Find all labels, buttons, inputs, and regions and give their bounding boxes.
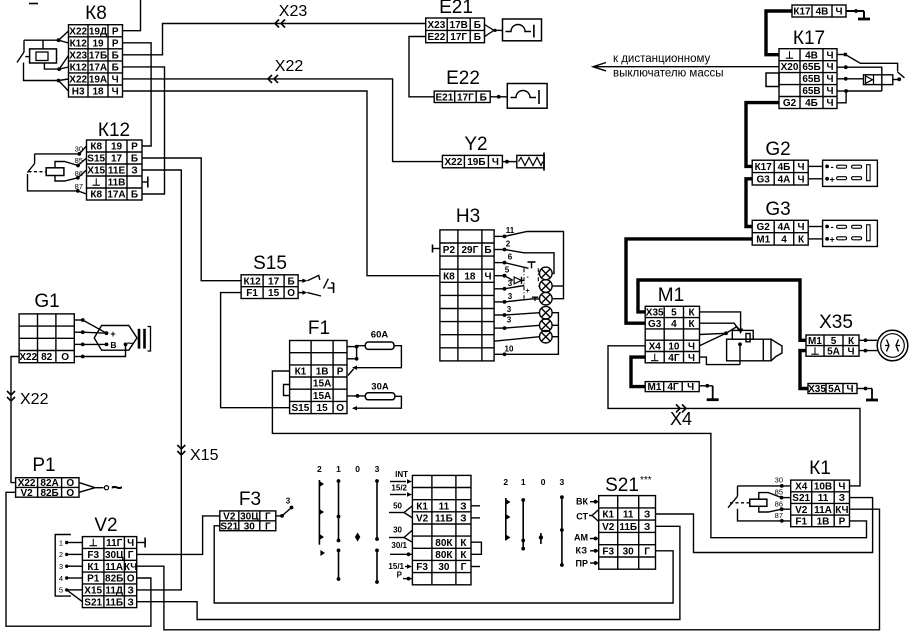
F1 left bracket linking 15A rows — [284, 385, 290, 396]
svg-text:S21: S21 — [84, 597, 102, 608]
svg-text:Ч: Ч — [838, 482, 845, 493]
ignition switch terminal R — [397, 571, 413, 581]
thick cable K17 pin5 to G2 pin1 — [746, 103, 779, 167]
svg-text:Х15: Х15 — [190, 447, 219, 464]
svg-text:Х22: Х22 — [19, 352, 37, 363]
svg-text:к дистанционному: к дистанционному — [613, 53, 711, 65]
svg-text:S15: S15 — [87, 154, 105, 165]
svg-text:17: 17 — [268, 276, 280, 287]
svg-text:Ч: Ч — [484, 271, 491, 282]
H3 pin 10 wire to lower lamp rail — [494, 313, 558, 356]
svg-text:19Б: 19Б — [467, 157, 485, 168]
svg-text:3: 3 — [286, 497, 291, 506]
svg-text:F1: F1 — [308, 318, 330, 339]
svg-text:V2: V2 — [795, 505, 808, 516]
socket X35 connector table — [806, 312, 859, 358]
svg-text:G2: G2 — [765, 139, 790, 160]
svg-text:Х22: Х22 — [69, 75, 87, 86]
svg-text:Ч: Ч — [797, 162, 804, 173]
svg-text:Р1: Р1 — [87, 574, 100, 585]
svg-text:15: 15 — [317, 403, 329, 414]
svg-text:18: 18 — [92, 87, 104, 98]
F1 wire to fuse 30A — [347, 394, 365, 398]
svg-text:3: 3 — [507, 316, 512, 325]
wire K8 pin6 to H3 pin — [123, 91, 440, 276]
svg-text:17В: 17В — [450, 20, 468, 31]
wires X35 to socket symbol — [859, 338, 877, 352]
svg-text:М1: М1 — [658, 285, 684, 306]
lamp E22 symbol — [490, 84, 547, 109]
svg-text:30: 30 — [775, 476, 783, 485]
svg-text:F3: F3 — [416, 562, 428, 573]
svg-text:G3: G3 — [765, 199, 790, 220]
svg-text:5А: 5А — [828, 384, 841, 395]
svg-text:Р2: Р2 — [443, 245, 456, 256]
svg-text:82: 82 — [41, 352, 53, 363]
H3 lamp rail stub to lamp 2 — [552, 285, 564, 287]
svg-text:КЧ: КЧ — [835, 505, 848, 516]
lamp E21 symbol — [485, 19, 542, 41]
switch S15 connector table — [241, 253, 298, 299]
ignition switch terminal 30 crowfoot — [389, 526, 412, 543]
svg-text:Ч: Ч — [835, 7, 842, 18]
svg-text:Ч: Ч — [112, 75, 119, 86]
relay-regulator P1 connector table — [16, 455, 79, 499]
svg-text:Г: Г — [265, 521, 271, 532]
resistor Y2 symbol — [502, 153, 544, 171]
svg-text:К: К — [460, 550, 467, 561]
svg-text:3: 3 — [560, 477, 565, 487]
svg-text:11Б: 11Б — [435, 514, 453, 525]
svg-text:Р: Р — [112, 26, 119, 37]
svg-text:15: 15 — [268, 288, 280, 299]
svg-text:S21: S21 — [792, 493, 810, 504]
wires G3 to battery symbol — [808, 227, 822, 239]
svg-text:17А: 17А — [89, 63, 107, 74]
svg-text:11А: 11А — [814, 505, 832, 516]
svg-text:Е22: Е22 — [428, 32, 446, 43]
svg-text:11Е: 11Е — [108, 166, 126, 177]
svg-text:Ч: Ч — [127, 538, 134, 549]
svg-text:17Г: 17Г — [457, 92, 474, 103]
svg-text:17Б: 17Б — [89, 50, 107, 61]
svg-text:В: В — [110, 340, 116, 350]
svg-text:11: 11 — [818, 493, 829, 504]
svg-text:11Д: 11Д — [105, 585, 123, 596]
svg-text:К: К — [460, 538, 467, 549]
wires G2 to battery symbol — [808, 166, 822, 178]
svg-text:Ч: Ч — [688, 353, 695, 364]
wire K12 pin3 connector X15 line to V2 — [137, 170, 182, 590]
svg-text:11Б: 11Б — [619, 522, 637, 533]
wire K8 pin3 to connector X23 line to E21 — [123, 24, 426, 55]
svg-text:Х15: Х15 — [87, 166, 105, 177]
svg-text:Ч: Ч — [826, 98, 833, 109]
svg-text:К12: К12 — [70, 63, 88, 74]
wire K12 pin2 to S15 — [142, 158, 242, 281]
svg-text:АМ: АМ — [574, 533, 588, 543]
svg-text:Ч: Ч — [826, 50, 833, 61]
svg-text:Б: Б — [131, 154, 138, 165]
svg-text:S15: S15 — [253, 253, 287, 274]
svg-text:30: 30 — [393, 526, 402, 535]
svg-text:Ч: Ч — [846, 384, 853, 395]
H3 pin 2 wire to lamp 2 — [494, 240, 554, 274]
svg-text:1В: 1В — [316, 367, 329, 378]
wire S15 pin2 to F1 S15 row — [221, 293, 290, 408]
svg-text:19А: 19А — [89, 75, 107, 86]
svg-text:Х4: Х4 — [649, 342, 662, 353]
svg-text:19: 19 — [92, 38, 104, 49]
svg-text:18: 18 — [464, 271, 476, 282]
svg-text:К8: К8 — [443, 271, 455, 282]
svg-text:Р: Р — [839, 517, 846, 528]
svg-text:11А: 11А — [105, 562, 123, 573]
svg-text:G2: G2 — [757, 222, 771, 233]
svg-text:Б: Б — [131, 190, 138, 201]
svg-text:К17: К17 — [793, 28, 825, 49]
wire K8 pin4 to K12 pin5 — [123, 67, 165, 194]
svg-text:З: З — [460, 501, 466, 512]
svg-text:1: 1 — [59, 538, 63, 547]
svg-text:⊥: ⊥ — [811, 347, 820, 358]
svg-text:Б: Б — [474, 32, 481, 43]
H3 pin 5 wire with diode — [494, 266, 524, 284]
svg-text:6: 6 — [508, 253, 513, 262]
svg-text:5: 5 — [59, 586, 63, 595]
svg-text:Б: Б — [474, 20, 481, 31]
svg-text:К: К — [688, 308, 695, 319]
svg-text:0: 0 — [541, 477, 546, 487]
svg-text:82Б: 82Б — [40, 488, 58, 499]
svg-text:S21: S21 — [605, 475, 639, 496]
connector X22 break marks left — [7, 391, 15, 401]
svg-text:З: З — [460, 514, 466, 525]
wire F1 K1 row to relay K1 F1 row — [272, 371, 866, 538]
ignition switch connector table — [412, 475, 471, 584]
starter motor symbol — [727, 330, 782, 360]
svg-text:Х23: Х23 — [69, 50, 87, 61]
svg-text:4А: 4А — [778, 174, 791, 185]
connector X22 break marks — [268, 75, 278, 83]
svg-text:Ч: Ч — [797, 222, 804, 233]
svg-text:К12: К12 — [98, 120, 130, 141]
svg-text:К12: К12 — [70, 38, 88, 49]
svg-text:11: 11 — [439, 501, 450, 512]
svg-text:+: + — [829, 175, 834, 185]
svg-text:-: - — [831, 162, 834, 172]
svg-text:-: - — [526, 274, 529, 281]
svg-text:4Б: 4Б — [778, 162, 791, 173]
H3 row9 wire to lamp 6 — [494, 337, 540, 342]
svg-text:Н3: Н3 — [456, 206, 480, 227]
position chart 1 column 1 bar — [337, 479, 341, 581]
K17 left tab marker — [766, 73, 779, 87]
svg-text:Ч: Ч — [847, 347, 854, 358]
warning lamp 5 — [540, 319, 553, 332]
wire K8 pin1 up to edge — [123, 0, 141, 31]
svg-text:1: 1 — [336, 464, 341, 474]
svg-text:Р1: Р1 — [32, 455, 55, 476]
resistor unit Y2 connector table — [442, 134, 502, 168]
svg-text:⊥: ⊥ — [92, 178, 101, 189]
svg-text:30: 30 — [623, 546, 635, 557]
label k distantsionnomu vyklyuchatelyu massy — [613, 53, 724, 80]
svg-text:К8: К8 — [90, 142, 102, 153]
svg-text:3: 3 — [59, 562, 63, 571]
svg-text:О: О — [127, 574, 135, 585]
connector X35-5A-Ch table — [808, 384, 857, 394]
svg-text:Х15: Х15 — [84, 585, 102, 596]
svg-text:29Г: 29Г — [462, 245, 479, 256]
battery G2 symbol — [823, 160, 878, 186]
ignition switch terminal INT — [390, 470, 412, 484]
svg-text:К1: К1 — [602, 510, 614, 521]
position chart 1 column 3 bar — [375, 479, 379, 584]
svg-text:50: 50 — [393, 502, 402, 511]
svg-text:G3: G3 — [757, 174, 771, 185]
K12 pin4 terminator bar — [142, 177, 148, 188]
P1 contact symbol — [79, 477, 123, 499]
position chart 2 column 2 bar — [506, 498, 511, 541]
wire relay K1 V2 row to V2 K1 row bottom bus — [137, 509, 880, 630]
svg-text:ВК: ВК — [576, 497, 588, 507]
wire K8 pin2 to K12 pin1 — [123, 43, 151, 146]
ignition switch right stubs — [471, 506, 481, 567]
svg-text:М1: М1 — [648, 382, 662, 393]
connector X23 break marks — [275, 20, 285, 28]
svg-text:Х22: Х22 — [445, 157, 463, 168]
svg-text:80К: 80К — [435, 550, 453, 561]
svg-text:85: 85 — [75, 156, 83, 165]
svg-text:Х20: Х20 — [781, 62, 799, 73]
svg-text:+: + — [110, 329, 115, 339]
svg-text:Е22: Е22 — [446, 68, 480, 89]
svg-text:К1: К1 — [295, 367, 307, 378]
wire fuse 30A return to S15 row — [352, 396, 401, 410]
relay K1 internal coil and switch symbol — [728, 484, 791, 523]
svg-text:З: З — [127, 597, 133, 608]
svg-text:17Г: 17Г — [450, 32, 467, 43]
thick cable M1 ground pin to M1-4G-Ch — [631, 357, 645, 387]
svg-text:⊥: ⊥ — [785, 50, 794, 61]
svg-text:60А: 60А — [371, 330, 389, 341]
wire P1 pin2 to V2 P1 row — [6, 492, 151, 626]
svg-text:Х4: Х4 — [795, 482, 808, 493]
thick cable G2 pin2 to G3 pin1 — [746, 179, 752, 227]
svg-text:Р: Р — [112, 38, 119, 49]
svg-text:Х23: Х23 — [428, 20, 446, 31]
wire F3 pin2 to S21 F3 row bus — [214, 526, 673, 603]
svg-text:11Б: 11Б — [105, 597, 123, 608]
H3 left pin2 terminator — [433, 245, 440, 253]
warning lamp 1 — [540, 267, 553, 280]
svg-text:Ч: Ч — [688, 342, 695, 353]
ground symbol top right — [846, 9, 870, 19]
svg-text:2: 2 — [506, 240, 511, 249]
svg-text:КЗ: КЗ — [576, 546, 588, 556]
svg-text:Е21: Е21 — [436, 92, 454, 103]
fuse box F1 connector table — [290, 318, 347, 414]
svg-text:З: З — [839, 493, 845, 504]
svg-text:F3: F3 — [87, 550, 99, 561]
thin wire M1 pin X4 to X4 line — [608, 346, 860, 486]
connector M1-4G-Ch table — [645, 382, 699, 392]
wire S21 V2 row to V2 S21 row bus — [137, 526, 680, 619]
svg-text:М1: М1 — [756, 235, 770, 246]
relay K8 internal coil and switch symbol — [17, 31, 69, 91]
thick cable X35 ground pin to X35-5A-Ch — [800, 351, 808, 389]
svg-text:17: 17 — [111, 154, 123, 165]
svg-text:К1: К1 — [416, 501, 428, 512]
svg-text:КЧ: КЧ — [124, 562, 137, 573]
warning lamp 6 — [540, 330, 553, 343]
svg-text:К1: К1 — [87, 562, 99, 573]
svg-text:~: ~ — [127, 338, 134, 350]
svg-text:19Д: 19Д — [89, 26, 107, 37]
svg-text:65Б: 65Б — [802, 62, 820, 73]
wire fuse 60A return to K1 row — [348, 346, 401, 376]
svg-text:Ч: Ч — [492, 157, 499, 168]
svg-text:65В: 65В — [802, 86, 820, 97]
svg-text:Е21: Е21 — [439, 0, 473, 18]
svg-text:Г: Г — [128, 550, 134, 561]
svg-text:3: 3 — [508, 279, 513, 288]
starter relay K1 connector table — [791, 458, 850, 528]
svg-text:10: 10 — [505, 345, 514, 354]
V2 left housing bracket and pins — [55, 535, 82, 602]
position chart 1 column 0 marker — [355, 533, 360, 542]
F1 feed wires to fuse 60A — [347, 345, 365, 361]
svg-text:30: 30 — [438, 562, 450, 573]
svg-text:15/2: 15/2 — [391, 484, 407, 493]
svg-text:4Г: 4Г — [667, 382, 679, 393]
svg-text:11: 11 — [623, 510, 634, 521]
svg-text:4: 4 — [781, 235, 787, 246]
relay K1 pin numbers 30 85 86 87 — [775, 476, 783, 521]
svg-text:СТ: СТ — [576, 512, 588, 522]
generator G1 connector table — [19, 291, 74, 363]
svg-text:V2: V2 — [20, 488, 33, 499]
svg-text:4В: 4В — [805, 50, 818, 61]
svg-text:⊥: ⊥ — [650, 353, 659, 364]
svg-text:Х35: Х35 — [819, 312, 853, 333]
svg-text:4В: 4В — [816, 7, 829, 18]
wire S21 K1 row to relay K1 S21 row — [656, 498, 873, 553]
position chart 1 column 2 bar — [319, 480, 325, 556]
connector X4 break marks — [676, 404, 686, 412]
wire V2 pin2 to F3 — [137, 516, 220, 555]
svg-text:Ч: Ч — [826, 62, 833, 73]
wire K8 pin5 connector X22 line to Y2 — [123, 79, 443, 162]
S21 terminal AM — [574, 533, 599, 543]
svg-text:30Ц: 30Ц — [105, 550, 124, 561]
svg-text:F3: F3 — [602, 546, 614, 557]
svg-text:4Г: 4Г — [668, 353, 680, 364]
H3 pin 3 wire row6 — [494, 292, 540, 304]
svg-text:Б: Б — [480, 92, 487, 103]
cropped wire stub above K8 — [29, 3, 38, 5]
svg-text:~: ~ — [111, 477, 123, 499]
svg-text:F1: F1 — [246, 288, 258, 299]
mass switch K17 connector table — [779, 28, 837, 109]
svg-text:2: 2 — [59, 550, 63, 559]
portable lamp socket symbol — [877, 330, 908, 361]
svg-text:30А: 30А — [371, 382, 389, 393]
wire arrow to remote mass switch — [593, 63, 779, 71]
svg-text:G1: G1 — [34, 291, 59, 312]
svg-text:К8: К8 — [85, 3, 107, 24]
svg-text:15А: 15А — [313, 379, 331, 390]
H3 pin 11 wire to lamp rail — [494, 226, 564, 299]
ignition switch terminal 15/1 — [388, 562, 412, 571]
wire G1 connector X22 line to P1 — [11, 357, 19, 483]
svg-text:3: 3 — [507, 305, 512, 314]
svg-text:86: 86 — [775, 499, 783, 508]
S21 terminal ST crowfoot — [576, 510, 598, 522]
svg-text:4А: 4А — [778, 222, 791, 233]
warning lamp 4 — [540, 306, 553, 319]
svg-text:Ч: Ч — [112, 87, 119, 98]
starter M1 connector table — [645, 285, 699, 364]
svg-text:З: З — [644, 510, 650, 521]
svg-text:V2: V2 — [416, 514, 429, 525]
svg-text:0: 0 — [355, 464, 360, 474]
relay K12 connector table — [87, 120, 143, 201]
warning lamp 2 — [540, 280, 553, 293]
ignition switch terminal 15/2 — [390, 484, 412, 497]
ignition switch terminal 30/1 — [390, 541, 412, 556]
svg-text:1: 1 — [521, 477, 526, 487]
svg-text:Y2: Y2 — [464, 134, 487, 155]
svg-text:11В: 11В — [108, 178, 126, 189]
svg-text:З: З — [127, 585, 133, 596]
svg-text:О: О — [61, 352, 69, 363]
position chart 2 column 1 bar — [521, 498, 525, 550]
svg-text:ПР: ПР — [576, 559, 588, 569]
svg-text:Б: Б — [112, 63, 119, 74]
svg-text:Г: Г — [461, 562, 467, 573]
svg-text:4: 4 — [59, 574, 63, 583]
connector K17-4V-Ch table top — [792, 5, 846, 17]
svg-text:К1: К1 — [809, 458, 831, 479]
svg-text:11: 11 — [506, 226, 515, 235]
ground symbol at M1-4G-Ch — [699, 384, 719, 400]
svg-text:-: - — [831, 222, 834, 232]
position chart 2 column 0 marker — [539, 533, 543, 544]
G1 output terminal bars — [139, 327, 151, 352]
svg-text:80К: 80К — [435, 538, 453, 549]
S21 terminal KZ — [576, 546, 599, 556]
svg-text:О: О — [66, 488, 74, 499]
fuse 30A symbol — [365, 393, 395, 400]
svg-text:Х22: Х22 — [275, 58, 304, 75]
H3 pin 3 wire row5 — [494, 279, 524, 291]
relay K12 internal coil and switch symbol — [28, 146, 87, 194]
H3 pin 3 wire row7 to lamp 4 — [494, 305, 540, 317]
svg-text:G2: G2 — [783, 98, 797, 109]
svg-text:30/1: 30/1 — [391, 541, 407, 550]
svg-text:82Б: 82Б — [105, 574, 123, 585]
indicator module dashed box with symbols — [524, 262, 540, 301]
battery G3 symbol — [823, 220, 878, 246]
battery G3 connector table — [752, 199, 808, 246]
svg-text:87: 87 — [775, 511, 783, 520]
starter solenoid wiring from M1 pins — [700, 312, 744, 365]
relay K12 pin numbers 30 85 86 87 — [75, 145, 83, 192]
svg-text:V2: V2 — [602, 522, 615, 533]
svg-text:65В: 65В — [802, 74, 820, 85]
